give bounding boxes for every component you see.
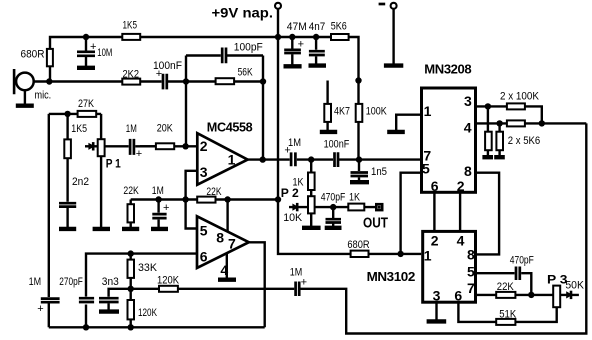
ground op-amp2 pin4 xyxy=(218,278,236,282)
resistor 680R supply MN3102 xyxy=(351,251,369,257)
wire 4n7 cap stem xyxy=(315,37,317,64)
resistor 4K7 xyxy=(324,104,331,122)
wire P1 wiper to 1M cap xyxy=(105,145,129,147)
svg-text:22K: 22K xyxy=(123,185,139,197)
IC MN3102 body xyxy=(423,231,476,302)
terminal +9V xyxy=(275,3,281,9)
wire MN3208 pin8 to MN3102 pin8 xyxy=(477,173,499,255)
svg-text:+: + xyxy=(90,41,96,53)
wire 5K6 a to ground xyxy=(487,106,489,155)
IC MN3208 body xyxy=(422,88,476,192)
svg-text:MN3102: MN3102 xyxy=(367,269,415,284)
svg-text:20K: 20K xyxy=(157,123,174,135)
svg-text:8: 8 xyxy=(464,163,472,179)
wire 47M cap stem xyxy=(291,37,293,65)
svg-text:680R: 680R xyxy=(347,239,369,251)
wire bias to pin3 and pin5 xyxy=(186,171,198,229)
svg-text:5: 5 xyxy=(422,160,430,176)
potentiometer P3 wiper arrow xyxy=(560,294,579,296)
resistor 33K xyxy=(128,260,135,278)
resistor 120K vertical xyxy=(128,300,135,319)
potentiometer P2 wiper arrow xyxy=(289,206,308,208)
resistor 120K horizontal xyxy=(159,286,178,292)
svg-text:3: 3 xyxy=(433,287,441,303)
wire P2 tap to 1K out xyxy=(315,206,376,208)
resistor 27K xyxy=(78,111,97,117)
svg-text:6: 6 xyxy=(431,178,439,194)
wire +9V terminal down line through bias to 680R feed xyxy=(278,9,421,254)
ground 1M bias xyxy=(151,227,168,231)
potentiometer P2 body xyxy=(308,196,315,213)
wire op-amp2 output down to bus xyxy=(249,242,265,327)
svg-text:8: 8 xyxy=(216,230,224,246)
svg-text:10K: 10K xyxy=(283,212,303,224)
svg-text:2: 2 xyxy=(200,138,208,154)
ground MN3208 pin1 xyxy=(387,130,405,134)
svg-text:5: 5 xyxy=(200,223,208,239)
svg-text:4: 4 xyxy=(220,262,228,278)
capacitor 100nF coupling plates xyxy=(335,152,339,167)
capacitor 100nF input plates xyxy=(163,74,167,90)
wire 100K down from 4K7 node to pin7 line xyxy=(357,81,359,160)
svg-text:470pF: 470pF xyxy=(321,192,346,204)
wire 22K bias resistor to ground xyxy=(129,200,131,228)
wire bias node row 22K to +9V line xyxy=(131,198,278,200)
capacitor 1M P1 plates xyxy=(130,139,134,155)
svg-text:1M: 1M xyxy=(126,123,137,135)
svg-text:470pF: 470pF xyxy=(510,254,534,266)
minus sign -9V xyxy=(379,3,386,6)
resistor 51K xyxy=(496,319,515,325)
wire op-amp1 output to MN3208 pin7 xyxy=(247,158,421,160)
capacitor 3n3 plates xyxy=(99,298,119,302)
terminal -9V xyxy=(391,3,397,9)
svg-text:8: 8 xyxy=(467,247,475,263)
resistor 20K xyxy=(156,143,174,149)
svg-text:120K: 120K xyxy=(138,307,157,319)
wire feedback loop right vertical to output xyxy=(262,56,264,160)
svg-text:270pF: 270pF xyxy=(59,276,83,288)
potentiometer P3 body xyxy=(553,286,560,308)
wire 1M cap to 20K xyxy=(135,145,156,147)
ground 22K bias xyxy=(122,227,139,231)
wire 33K branch xyxy=(129,254,131,289)
ground mic xyxy=(16,103,34,107)
wire +9V rail from 680R top along top to 5K6 corner down to 4K7/100K node xyxy=(50,37,359,82)
svg-text:3n3: 3n3 xyxy=(102,276,119,288)
op-amp U1a triangle xyxy=(197,133,247,185)
svg-text:22K: 22K xyxy=(497,281,515,293)
capacitor 2n2 plates xyxy=(59,203,76,206)
ground 4K7 xyxy=(320,130,337,134)
ground 47M xyxy=(284,64,302,68)
svg-text:100pF: 100pF xyxy=(234,41,263,53)
resistor 5K6 a vertical xyxy=(485,132,492,151)
potentiometer P1 wiper arrow xyxy=(85,145,98,147)
resistor 2x100K lower xyxy=(507,120,525,126)
wire 1n5 cap stem xyxy=(358,160,360,181)
wire 10M cap stem xyxy=(85,37,87,67)
svg-text:10M: 10M xyxy=(97,47,112,59)
svg-text:4: 4 xyxy=(457,232,465,248)
svg-text:33K: 33K xyxy=(138,262,158,274)
capacitor 47M plates xyxy=(284,50,301,53)
wire MN3208 pin4 net to right side xyxy=(477,122,586,124)
resistor 2x100K upper xyxy=(507,103,525,109)
ground 4n7 xyxy=(309,63,327,67)
wire op-amp2 pin6 from 270pF top xyxy=(86,254,197,297)
svg-text:+: + xyxy=(301,276,307,288)
svg-text:680R: 680R xyxy=(21,48,45,60)
svg-text:+: + xyxy=(284,145,290,157)
svg-text:5K6: 5K6 xyxy=(331,21,347,33)
svg-text:mic.: mic. xyxy=(35,89,52,101)
capacitor 4n7 plates xyxy=(309,51,325,55)
svg-text:1M: 1M xyxy=(29,276,41,288)
svg-text:4: 4 xyxy=(464,120,472,136)
wire -9V terminal to ground xyxy=(392,9,394,64)
ground -9V xyxy=(384,63,403,67)
capacitor 470pF MN3102 plates xyxy=(516,267,520,281)
wire 1M bias cap stem xyxy=(157,200,159,228)
capacitor 1n5 plates xyxy=(351,173,369,177)
wire MN3102 pin3 to ground xyxy=(435,303,437,319)
svg-text:MN3208: MN3208 xyxy=(424,61,471,76)
capacitor 270pF plates xyxy=(79,298,94,302)
resistor 1K output xyxy=(348,204,364,211)
resistor 5K6 top xyxy=(331,34,349,40)
svg-text:47M: 47M xyxy=(287,21,307,33)
svg-text:P 2: P 2 xyxy=(281,186,299,200)
svg-text:+: + xyxy=(163,202,169,214)
wire MN3102 pin5 to 470pF xyxy=(477,273,531,295)
svg-text:6: 6 xyxy=(454,287,462,303)
wire feedback loop left vertical to pin2 xyxy=(185,56,187,147)
svg-text:MC4558: MC4558 xyxy=(207,120,253,135)
svg-text:+: + xyxy=(156,68,162,80)
wire 270pF bottom to bus xyxy=(85,305,87,328)
wire 56K branch xyxy=(186,80,263,82)
resistor 22K bias vertical xyxy=(128,204,135,222)
svg-text:100nF: 100nF xyxy=(324,139,350,151)
capacitor 100pF plates xyxy=(222,48,226,64)
wire P1 bottom to ground xyxy=(100,156,102,227)
op-amp U1b triangle xyxy=(197,216,249,268)
svg-text:1K5: 1K5 xyxy=(123,20,138,32)
resistor 1K5 vertical xyxy=(64,139,71,158)
ground 470pF P2 xyxy=(325,226,342,230)
wire 3n3 to 120K node xyxy=(109,289,131,310)
svg-text:56K: 56K xyxy=(238,66,254,78)
ground 10M xyxy=(77,66,95,70)
resistor 2K2 xyxy=(122,79,140,85)
wire 470pF stem at P2 xyxy=(332,207,334,226)
node dots xyxy=(83,34,89,40)
ground 3n3 xyxy=(99,309,119,313)
wire MN3102 pin7 through 22K to P3 xyxy=(477,294,553,296)
svg-text:1n5: 1n5 xyxy=(371,166,387,178)
resistor 100K vertical xyxy=(356,104,363,122)
svg-text:2 x 100K: 2 x 100K xyxy=(500,91,540,103)
mic microphone symbol xyxy=(16,73,34,91)
resistor 680R input xyxy=(47,49,53,66)
wire MN3208 pin2 to MN3102 pin4 xyxy=(459,193,461,231)
wire bottom return bus xyxy=(49,326,265,328)
ground 5K6 a xyxy=(482,155,493,159)
resistor 5K6 b vertical xyxy=(496,132,503,151)
wire MN3208 pin5 down to 680R node xyxy=(401,173,421,254)
ground 5K6 b xyxy=(494,155,505,159)
wire op-amp2 pin4 to ground xyxy=(226,253,228,278)
svg-text:+: + xyxy=(298,39,304,51)
resistor 1K5 supply xyxy=(122,34,140,40)
svg-text:7: 7 xyxy=(228,235,236,251)
ground P1 xyxy=(93,227,110,231)
svg-text:2: 2 xyxy=(457,178,465,194)
ground MN3102 pin3 xyxy=(427,319,447,323)
wire op-amp2 power pin8 stub xyxy=(226,200,228,233)
capacitor 1M bias plates xyxy=(152,214,166,218)
svg-text:1: 1 xyxy=(424,103,432,119)
svg-text:+: + xyxy=(37,303,43,315)
wire 4K7 branch to ground xyxy=(326,81,328,131)
svg-text:120K: 120K xyxy=(157,275,180,287)
wire MN3208 pin3 to 2x100K xyxy=(477,106,542,123)
svg-text:2n2: 2n2 xyxy=(72,176,89,188)
svg-text:4K7: 4K7 xyxy=(334,106,350,118)
svg-text:5: 5 xyxy=(467,264,475,280)
svg-text:3: 3 xyxy=(200,164,208,180)
wire P3 bottom to 51K to MN3102 pin6 xyxy=(458,303,556,322)
wire 100nF to input node xyxy=(168,80,186,82)
wire 1K5 branch down to 2n2 and ground xyxy=(66,114,68,228)
svg-text:51K: 51K xyxy=(499,309,517,321)
svg-text:+: + xyxy=(136,148,142,160)
capacitor 10M plates xyxy=(77,52,95,56)
svg-text:2K2: 2K2 xyxy=(123,68,140,80)
svg-text:6: 6 xyxy=(200,248,208,264)
wire feedback loop top 100pF branch xyxy=(186,54,263,56)
wire left long line down to 1M cap xyxy=(48,114,50,327)
resistor 1K vertical xyxy=(308,173,315,191)
svg-text:27K: 27K xyxy=(78,98,95,110)
wire 5K6 b to ground xyxy=(498,123,500,155)
wire pin2 node to op-amp xyxy=(140,145,197,147)
svg-text:22K: 22K xyxy=(206,186,222,198)
svg-text:3: 3 xyxy=(464,93,472,109)
resistor 56K xyxy=(216,78,235,84)
svg-text:1K5: 1K5 xyxy=(71,123,87,135)
svg-text:1: 1 xyxy=(228,151,236,167)
potentiometer P1 body xyxy=(98,139,105,156)
wire 1M out cap along bottom and right side to pin4 net xyxy=(300,123,586,333)
resistor 22K bias horizontal xyxy=(197,197,215,203)
svg-text:P 1: P 1 xyxy=(106,157,121,171)
resistor 22K MN3102 xyxy=(496,292,515,298)
svg-text:2: 2 xyxy=(431,232,439,248)
ground 2n2 xyxy=(59,227,76,231)
wire MN3208 pin1 to ground xyxy=(396,115,421,131)
svg-text:100K: 100K xyxy=(366,106,388,118)
svg-text:2 x 5K6: 2 x 5K6 xyxy=(508,135,540,147)
svg-text:4n7: 4n7 xyxy=(309,21,326,33)
capacitor 1M coupling plates xyxy=(291,152,295,166)
svg-text:1: 1 xyxy=(424,248,432,264)
wire 120K horizontal to 1M out cap xyxy=(131,288,295,290)
connector OUT square xyxy=(376,204,382,210)
svg-text:+9V nap.: +9V nap. xyxy=(212,4,274,20)
ground 1n5 xyxy=(350,180,369,184)
svg-text:1K: 1K xyxy=(349,192,361,204)
capacitor 1M left plates xyxy=(41,299,60,303)
svg-text:7: 7 xyxy=(467,280,475,296)
svg-text:OUT: OUT xyxy=(363,215,388,231)
wire 1K P2 divider chain xyxy=(310,160,312,226)
ground P2 xyxy=(302,226,321,230)
capacitor 470pF P2 plates xyxy=(326,219,342,222)
wire mic output to input node xyxy=(34,80,162,82)
wire 120K vertical to bus xyxy=(129,289,131,328)
svg-text:50K: 50K xyxy=(565,279,584,291)
svg-text:1M: 1M xyxy=(152,185,164,197)
wire 27K branch with P1 top xyxy=(49,114,101,139)
wire MN3208 pin6 to MN3102 pin2 xyxy=(433,193,435,231)
capacitor 1M output plates xyxy=(296,282,300,297)
